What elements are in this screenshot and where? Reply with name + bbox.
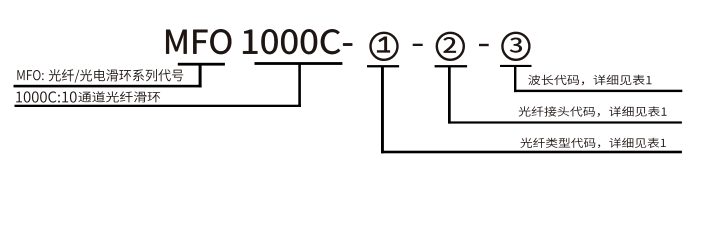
wire from circled 1 down to right label 3 bbox=[381, 66, 384, 154]
underline of left label 1 bbox=[14, 85, 202, 88]
underline of right label 3 bbox=[381, 151, 682, 154]
title text "1000C-" bbox=[243, 29, 352, 54]
underline of right label 2 bbox=[448, 121, 682, 123]
label text "1000C:10" (left label 2 latin part) bbox=[16, 91, 76, 102]
circled number 1 bbox=[371, 33, 398, 60]
label text "光纤/光电滑环系列代号" (left label 1 cjk part) bbox=[49, 69, 184, 83]
title text "MFO" bbox=[166, 29, 231, 54]
hyphen between circled 1 and 2 bbox=[413, 44, 423, 46]
bracket under circled 1 bbox=[367, 65, 399, 67]
underline of left label 2 bbox=[15, 105, 301, 107]
label text "光纤接头代码，详细见表1" (right label 2) bbox=[519, 106, 667, 117]
wire from circled 2 down to right label 2 bbox=[448, 66, 451, 124]
wire from circled 3 down to right label 1 bbox=[514, 65, 516, 92]
label text "波长代码，详细见表1" (right label 1) bbox=[528, 75, 651, 86]
label text "光纤类型代码，详细见表1" (right label 3) bbox=[520, 138, 665, 148]
circled number 3 bbox=[502, 33, 529, 60]
underline of right label 1 bbox=[514, 90, 682, 92]
bracket under 1000C bbox=[255, 62, 343, 65]
label text "通道光纤滑环" (left label 2 cjk part) bbox=[78, 91, 160, 102]
hyphen between circled 2 and 3 bbox=[479, 44, 489, 46]
wire from 1000C bracket down to left label 2 bbox=[298, 63, 301, 108]
bracket under circled 2 bbox=[435, 65, 468, 67]
label text "MFO:" (left label 1 latin part) bbox=[17, 70, 43, 80]
bracket under circled 3 bbox=[500, 65, 532, 67]
bracket under MFO bbox=[178, 63, 225, 66]
circled number 2 bbox=[437, 33, 464, 60]
wire from MFO bracket down to left label 1 bbox=[199, 63, 202, 87]
